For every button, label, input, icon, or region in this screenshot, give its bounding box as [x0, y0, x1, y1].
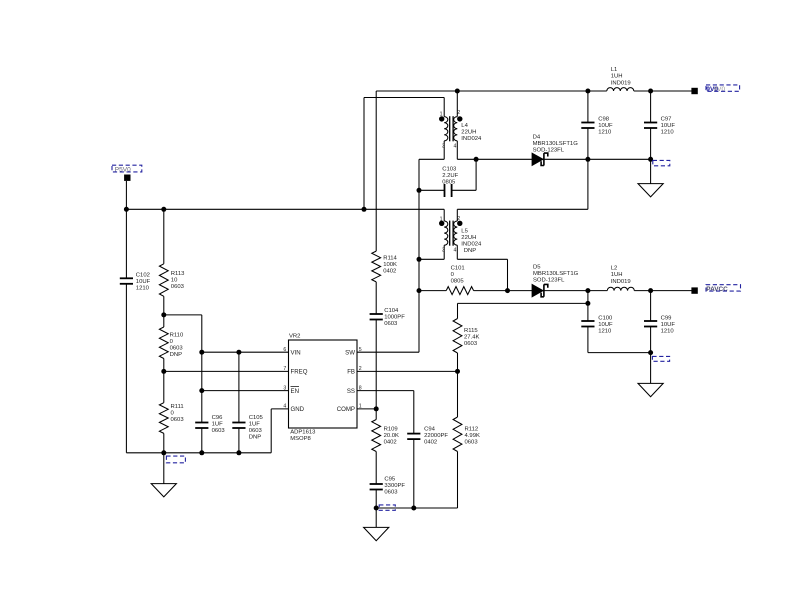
svg-text:2: 2 [457, 216, 460, 222]
svg-text:0603: 0603 [384, 489, 398, 495]
svg-text:10UF: 10UF [598, 123, 613, 129]
svg-text:L4: L4 [461, 123, 468, 129]
svg-text:0805: 0805 [451, 278, 465, 284]
svg-text:DNP: DNP [170, 352, 183, 358]
svg-text:R114: R114 [383, 256, 397, 262]
svg-text:C103: C103 [442, 167, 457, 173]
svg-text:R112: R112 [465, 426, 479, 432]
svg-text:DNP: DNP [464, 248, 477, 254]
svg-text:MSOP8: MSOP8 [290, 436, 311, 442]
svg-text:D5: D5 [533, 264, 541, 270]
svg-text:100K: 100K [383, 262, 397, 268]
svg-text:C96: C96 [212, 415, 224, 421]
svg-text:FB: FB [347, 369, 355, 376]
svg-text:C98: C98 [598, 116, 610, 122]
svg-text:0603: 0603 [249, 428, 263, 434]
svg-text:C97: C97 [661, 116, 672, 122]
svg-text:1: 1 [440, 111, 443, 117]
svg-text:1UF: 1UF [212, 421, 224, 427]
svg-text:COMP: COMP [337, 406, 355, 413]
svg-text:10UF: 10UF [661, 123, 676, 129]
svg-text:27.4K: 27.4K [464, 334, 479, 340]
svg-text:0603: 0603 [464, 341, 478, 347]
svg-text:VR2: VR2 [289, 334, 300, 340]
svg-text:0805: 0805 [442, 180, 456, 186]
svg-text:R109: R109 [384, 426, 398, 432]
svg-text:C95: C95 [384, 476, 396, 482]
svg-text:L5: L5 [461, 228, 468, 234]
svg-text:C102: C102 [136, 273, 150, 279]
svg-text:7: 7 [283, 366, 286, 372]
svg-text:8: 8 [359, 385, 362, 391]
svg-text:22UH: 22UH [461, 130, 476, 136]
svg-text:C101: C101 [451, 265, 465, 271]
svg-text:2.2UF: 2.2UF [442, 173, 458, 179]
svg-text:1210: 1210 [598, 329, 612, 335]
svg-text:L1: L1 [611, 67, 618, 73]
svg-text:SS: SS [347, 388, 355, 395]
svg-text:0402: 0402 [384, 439, 397, 445]
svg-text:1210: 1210 [598, 129, 612, 135]
svg-text:10UF: 10UF [661, 322, 676, 328]
svg-text:MBR130LSFT1G: MBR130LSFT1G [533, 271, 579, 277]
svg-text:0603: 0603 [171, 417, 185, 423]
svg-text:EN: EN [291, 388, 299, 395]
svg-text:C100: C100 [598, 316, 613, 322]
svg-text:0603: 0603 [212, 428, 226, 434]
svg-text:4.99K: 4.99K [465, 433, 480, 439]
svg-text:1UH: 1UH [611, 272, 623, 278]
svg-text:2: 2 [359, 366, 362, 372]
svg-text:C94: C94 [424, 426, 436, 432]
svg-text:ADP1613: ADP1613 [290, 430, 316, 436]
svg-text:PAVCC: PAVCC [706, 286, 728, 293]
svg-text:3: 3 [283, 385, 286, 391]
svg-text:2: 2 [457, 110, 460, 116]
svg-text:DNP: DNP [249, 434, 262, 440]
svg-text:IND024: IND024 [461, 241, 482, 247]
svg-text:3: 3 [442, 143, 445, 149]
svg-text:0603: 0603 [171, 284, 185, 290]
svg-text:22UH: 22UH [461, 235, 476, 241]
svg-text:SOD-123FL: SOD-123FL [533, 148, 565, 154]
svg-text:MBR130LSFT1G: MBR130LSFT1G [533, 141, 579, 147]
svg-text:1000PF: 1000PF [384, 314, 405, 320]
svg-text:5: 5 [359, 347, 362, 353]
svg-text:R111: R111 [171, 404, 184, 410]
svg-text:4: 4 [454, 248, 457, 254]
svg-text:1210: 1210 [136, 286, 150, 292]
svg-text:1: 1 [359, 404, 362, 410]
svg-text:0603: 0603 [384, 321, 398, 327]
svg-text:GND: GND [291, 406, 305, 413]
svg-text:0402: 0402 [424, 439, 437, 445]
svg-text:IND024: IND024 [461, 136, 482, 142]
svg-text:4: 4 [454, 143, 457, 149]
svg-text:22000PF: 22000PF [424, 433, 448, 439]
svg-text:10: 10 [171, 278, 178, 284]
svg-text:0603: 0603 [170, 346, 184, 352]
svg-text:L2: L2 [611, 265, 618, 271]
svg-text:1UF: 1UF [249, 421, 261, 427]
svg-text:1UH: 1UH [611, 74, 623, 80]
svg-text:R113: R113 [171, 271, 185, 277]
svg-text:10UF: 10UF [136, 279, 151, 285]
svg-text:10UF: 10UF [598, 322, 613, 328]
svg-text:C99: C99 [661, 316, 672, 322]
svg-text:C105: C105 [249, 415, 264, 421]
svg-text:3300PF: 3300PF [384, 483, 405, 489]
svg-text:FREQ: FREQ [291, 369, 308, 376]
svg-text:6: 6 [283, 347, 286, 353]
svg-text:R115: R115 [464, 328, 478, 334]
svg-text:C104: C104 [384, 308, 399, 314]
svg-text:VIN: VIN [291, 349, 301, 356]
svg-text:IND019: IND019 [611, 81, 631, 87]
svg-text:1: 1 [440, 217, 443, 223]
svg-text:D4: D4 [533, 135, 541, 141]
svg-text:0603: 0603 [465, 439, 479, 445]
svg-text:3: 3 [442, 248, 445, 254]
svg-text:4: 4 [283, 404, 286, 410]
svg-text:R110: R110 [170, 333, 184, 339]
svg-text:1210: 1210 [661, 129, 675, 135]
svg-text:20.0K: 20.0K [384, 433, 399, 439]
svg-text:SW: SW [345, 349, 355, 356]
svg-text:1210: 1210 [661, 329, 675, 335]
svg-text:IND019: IND019 [611, 279, 631, 285]
svg-text:SOD-123FL: SOD-123FL [533, 278, 565, 284]
svg-text:0402: 0402 [383, 269, 396, 275]
